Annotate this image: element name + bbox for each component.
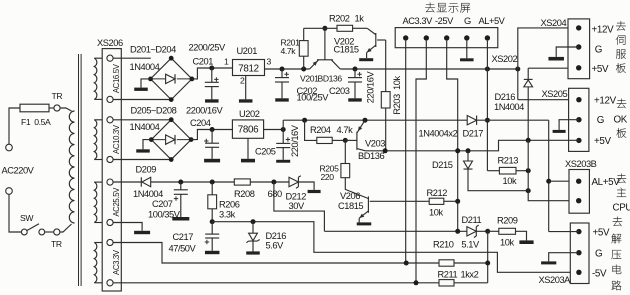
wire XS203A +5V	[549, 231, 579, 233]
svg-text:C205: C205	[255, 147, 276, 157]
zener D216 5.6V	[252, 222, 254, 234]
svg-text:680: 680	[268, 189, 282, 199]
transistor V201 BD136	[310, 60, 319, 69]
wire XS202 pin2 AC3.3V down	[416, 41, 426, 283]
label to OK board	[617, 99, 627, 109]
svg-text:G: G	[595, 45, 602, 56]
wire D211 line	[324, 230, 467, 232]
diode D209 1N4004	[140, 177, 142, 186]
svg-text:R203 10k: R203 10k	[392, 76, 402, 115]
svg-text:TR: TR	[51, 239, 62, 249]
svg-text:XS205: XS205	[542, 89, 568, 99]
svg-text:7806: 7806	[238, 125, 259, 136]
svg-text:D211: D211	[462, 215, 482, 225]
wire to XS203B AL+5V	[548, 120, 550, 231]
capacitor C201 2200/25V	[211, 68, 213, 82]
svg-text:C217: C217	[173, 232, 194, 242]
transformer TR primary winding	[69, 111, 74, 223]
svg-text:1N4004: 1N4004	[130, 62, 160, 72]
AC220V source terminals	[6, 144, 13, 151]
ground D212	[308, 190, 321, 193]
svg-text:BD136: BD136	[358, 151, 384, 161]
ground U201 pin2	[245, 76, 247, 100]
connector XS202	[395, 28, 498, 48]
svg-text:4.7k: 4.7k	[281, 46, 297, 56]
regulator U201 7812	[233, 60, 265, 76]
switch SW	[21, 229, 27, 235]
svg-text:10k: 10k	[429, 208, 443, 218]
svg-text:+12V: +12V	[592, 25, 615, 36]
svg-text:10k: 10k	[503, 176, 517, 186]
svg-text:D212: D212	[286, 192, 307, 202]
wire XS206 pin5	[113, 181, 141, 183]
svg-text:1N4004: 1N4004	[133, 189, 163, 199]
bridge rectifier D205~D208	[151, 120, 191, 160]
wire -5V feed line	[212, 222, 579, 273]
svg-text:R210: R210	[433, 240, 454, 250]
svg-text:+12V: +12V	[594, 96, 617, 107]
svg-text:D205~D208: D205~D208	[131, 106, 177, 116]
capacitor C205 220/16V	[282, 130, 284, 144]
svg-text:XS203B: XS203B	[565, 159, 597, 169]
transistor V203 BD136	[357, 120, 365, 133]
svg-text:7812: 7812	[238, 64, 258, 75]
svg-text:220/16V: 220/16V	[290, 124, 300, 157]
wire rail V201 to right	[340, 68, 518, 70]
svg-text:10k: 10k	[500, 238, 514, 248]
svg-text:C1815: C1815	[334, 45, 359, 55]
svg-text:D209: D209	[136, 165, 157, 175]
capacitor C204 2200/16V	[211, 130, 213, 144]
resistor R204 4.7k	[305, 120, 317, 140]
capacitor C207 100/35V	[180, 182, 182, 190]
wire bridge1 to C201 node	[192, 68, 233, 79]
wire AC220V bottom to switch	[9, 194, 21, 232]
wire to XS203B pin2	[528, 140, 579, 200]
transistor V206 C1815	[367, 197, 368, 200]
svg-text:C201: C201	[193, 56, 214, 66]
svg-text:-25V: -25V	[435, 16, 454, 26]
svg-text:BD136: BD136	[318, 74, 343, 84]
resistor R202 1k	[304, 27, 337, 29]
wire XS206 pin1 to bridge	[113, 57, 151, 59]
svg-text:U202: U202	[239, 109, 260, 119]
svg-text:2: 2	[240, 76, 245, 86]
transformer secondary winding AC16.5V	[94, 58, 97, 99]
wire AC3.3V line A with R210	[113, 243, 439, 264]
ground XS203A G	[549, 253, 579, 262]
wire +12V to XS205	[518, 99, 579, 101]
svg-text:D201~D204: D201~D204	[130, 45, 176, 55]
connector XS204	[568, 19, 590, 79]
ground V202 emitter	[359, 58, 373, 61]
svg-text:100/35V: 100/35V	[148, 210, 181, 220]
svg-text:3: 3	[267, 57, 272, 67]
zener D211 5.1V	[467, 227, 476, 236]
wire XS206 pin2 to bridge	[113, 99, 171, 101]
svg-text:4.7k: 4.7k	[337, 125, 354, 135]
wire 6V rail	[283, 119, 467, 121]
resistor R209 10k	[488, 230, 499, 232]
svg-text:XS203A: XS203A	[539, 275, 572, 285]
svg-text:G: G	[595, 249, 602, 260]
connector XS205	[569, 88, 589, 151]
transformer core	[79, 54, 82, 286]
zener D212 30V	[289, 177, 298, 186]
capacitor C202 100/25V	[281, 69, 283, 78]
title to display	[425, 2, 435, 12]
svg-text:SW: SW	[20, 213, 34, 223]
wire TR to primary top	[60, 108, 71, 111]
wire XS206 pin3	[113, 119, 171, 121]
svg-text:G: G	[597, 115, 604, 126]
resistor R206 3.3k	[211, 182, 213, 195]
wire U202 out	[264, 129, 284, 131]
wire switch to TR bottom terminal	[45, 231, 54, 233]
label to servo board	[616, 21, 626, 31]
label to main CPU	[617, 174, 627, 184]
svg-text:1kx2: 1kx2	[461, 270, 479, 280]
resistor R212 10k	[429, 198, 444, 204]
svg-text:+5V: +5V	[594, 136, 611, 147]
wire fuse to TR terminal	[49, 107, 54, 109]
svg-text:U201: U201	[237, 46, 258, 56]
svg-text:1N4004x2: 1N4004x2	[419, 129, 458, 139]
svg-text:1k: 1k	[355, 14, 365, 24]
svg-text:30V: 30V	[289, 201, 305, 211]
transistor V202 C1815	[367, 28, 376, 34]
diode D217	[467, 116, 476, 125]
svg-text:F1 0.5A: F1 0.5A	[21, 117, 51, 127]
svg-text:XS206: XS206	[97, 38, 123, 48]
svg-text:-5V: -5V	[592, 269, 607, 280]
svg-text:220/16V: 220/16V	[365, 71, 375, 104]
svg-text:XS204: XS204	[541, 18, 567, 28]
connector XS203A	[570, 223, 589, 284]
regulator U202 7806	[232, 120, 263, 138]
svg-text:R211: R211	[438, 270, 458, 280]
svg-text:C207: C207	[152, 199, 173, 209]
wire XS202 pin3 -25V down	[447, 41, 458, 232]
ground XS202 pin G	[466, 41, 468, 59]
capacitor C217 47/50V	[211, 222, 213, 234]
ground XS204 G	[556, 47, 579, 57]
svg-text:R202: R202	[329, 14, 350, 24]
svg-text:R213: R213	[498, 156, 519, 166]
ground XS205 G	[559, 120, 579, 130]
node TR top terminal	[54, 105, 60, 111]
resistor R203 10k	[385, 40, 387, 92]
svg-text:AL+5V: AL+5V	[592, 177, 621, 188]
svg-text:XS202: XS202	[492, 54, 518, 64]
svg-text:5.6V: 5.6V	[266, 241, 285, 251]
resistor R213 10k	[487, 170, 499, 172]
svg-text:AC220V: AC220V	[2, 166, 35, 176]
svg-text:5.1V: 5.1V	[461, 239, 480, 249]
wire U202 out up to 6V rail	[282, 120, 284, 129]
label to decompress circuit	[613, 217, 623, 227]
diode D215	[467, 151, 469, 161]
svg-text:2200/25V: 2200/25V	[189, 43, 226, 53]
wire D216 cathode to XS204 +5V	[528, 67, 579, 69]
svg-text:C204: C204	[190, 118, 211, 128]
svg-text:2200/16V: 2200/16V	[186, 106, 223, 116]
svg-text:D216: D216	[495, 92, 516, 102]
svg-text:V203: V203	[365, 139, 385, 149]
wire rail to D211 line	[274, 182, 325, 231]
wire XS202 pin5 AL+5V down	[486, 41, 488, 171]
svg-text:R208: R208	[234, 189, 255, 199]
svg-text:3.3k: 3.3k	[219, 210, 236, 220]
bridge rectifier D201~D204	[151, 58, 192, 99]
svg-text:R209: R209	[497, 216, 518, 226]
svg-text:OK: OK	[614, 115, 628, 126]
resistor R205 220	[344, 140, 346, 163]
wire U201 out rail	[265, 68, 310, 70]
svg-text:220: 220	[321, 172, 335, 182]
ground U202	[247, 138, 249, 159]
connector XS206	[102, 49, 121, 291]
wire diode join vertical	[487, 231, 489, 282]
capacitor C203 220/16V	[354, 69, 356, 78]
svg-text:V201: V201	[300, 74, 319, 84]
resistor R201 4.7k	[303, 56, 305, 69]
svg-text:V206: V206	[340, 191, 360, 201]
svg-text:D217: D217	[463, 129, 484, 139]
wire XS206 pin4	[113, 159, 171, 161]
transformer secondary winding AC25.5V	[94, 182, 97, 222]
diode D216 1N4004	[527, 68, 529, 79]
wire V206 base to R212	[370, 200, 430, 202]
svg-text:C1815: C1815	[338, 201, 363, 211]
svg-text:R204: R204	[310, 125, 331, 135]
svg-text:AC3.3V: AC3.3V	[403, 16, 434, 26]
transformer secondary winding AC10.3V	[94, 120, 97, 160]
svg-text:G: G	[464, 16, 471, 26]
ground V206 emitter	[357, 222, 372, 225]
svg-text:D216: D216	[266, 231, 287, 241]
wire XS202 pin1 AC3.3V down	[405, 41, 407, 263]
svg-text:R212: R212	[427, 188, 448, 198]
svg-text:1: 1	[224, 57, 229, 67]
wire AC220V top to fuse	[9, 108, 20, 144]
ground R209	[519, 240, 533, 244]
fuse F1 0.5A	[20, 104, 49, 112]
svg-text:+5V: +5V	[592, 64, 609, 75]
svg-text:47/50V: 47/50V	[169, 244, 197, 254]
resistor R208 680	[234, 179, 250, 185]
ground bridge2	[143, 140, 151, 150]
ground AC25.5V pin2	[113, 223, 142, 231]
wire +12V to XS204	[518, 28, 579, 100]
svg-text:CPU: CPU	[613, 203, 630, 214]
svg-text:100/25V: 100/25V	[297, 93, 330, 103]
svg-text:AL+5V: AL+5V	[479, 16, 506, 26]
wire +5V line	[365, 140, 579, 151]
svg-text:C203: C203	[329, 86, 350, 96]
svg-text:1N4004: 1N4004	[130, 122, 160, 132]
svg-text:TR: TR	[52, 91, 63, 101]
wires windings to XS206 pins	[94, 57, 107, 59]
svg-text:AC3.3V: AC3.3V	[112, 249, 121, 275]
svg-text:D215: D215	[432, 160, 453, 170]
node TR bottom terminal	[54, 229, 60, 235]
transformer secondary winding AC3.3V	[94, 243, 97, 283]
connector XS203B	[569, 170, 589, 214]
svg-text:AC25.5V: AC25.5V	[112, 187, 121, 217]
svg-text:1N4004: 1N4004	[494, 102, 524, 112]
ground at bridge1	[141, 79, 151, 88]
svg-text:+5V: +5V	[593, 228, 610, 239]
svg-text:R206: R206	[219, 200, 240, 210]
svg-text:AC10.3V: AC10.3V	[112, 124, 121, 154]
wire AC3.3V line B with R211	[113, 282, 439, 284]
svg-text:AC16.5V: AC16.5V	[112, 63, 121, 93]
wire bridge2 to U202	[191, 130, 232, 140]
wire TR bottom to primary bottom	[60, 224, 72, 232]
